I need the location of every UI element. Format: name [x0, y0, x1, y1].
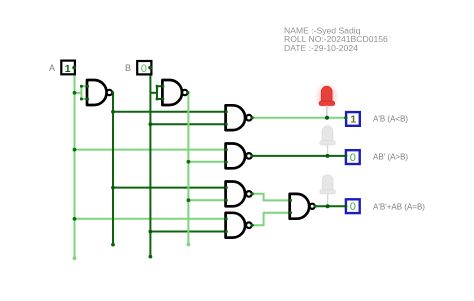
- junction node A-U6: [73, 217, 77, 221]
- pin nodes U6: [225, 217, 254, 233]
- nand-gate U5: [226, 182, 252, 207]
- svg-text:1: 1: [65, 63, 71, 75]
- wire U4 output to output O2 (low): [252, 155, 346, 157]
- wire tied-input bracket U1: [81, 86, 87, 99]
- nand-gate U4: [226, 144, 252, 169]
- wire A' to NAND U5 top input: [113, 187, 226, 189]
- wire A branch to NOT gate input: [75, 92, 82, 94]
- title text block: [284, 25, 388, 52]
- junction node A-U4: [73, 148, 77, 152]
- wire B vertical (low): [149, 68, 151, 257]
- pin node input A: [72, 66, 76, 70]
- svg-text:A'B (A<B): A'B (A<B): [373, 114, 408, 123]
- svg-text:0: 0: [141, 63, 147, 75]
- junction node LED2: [326, 154, 330, 158]
- junction node A'-U5: [111, 186, 115, 190]
- svg-text:DATE :-29-10-2024: DATE :-29-10-2024: [284, 43, 358, 53]
- wire B to NAND U3 bottom input: [150, 123, 225, 125]
- nand-gate U3: [226, 105, 252, 130]
- endpoint node A' wire: [111, 243, 115, 247]
- svg-text:A'B'+AB (A=B): A'B'+AB (A=B): [373, 203, 425, 212]
- wire U3 output to output O1 (high): [252, 117, 346, 119]
- output O2 box: [346, 150, 360, 164]
- junction node LED1: [325, 116, 329, 120]
- LED D3 (off gray): [320, 175, 336, 206]
- svg-text:0: 0: [350, 201, 356, 213]
- junction node LED3: [326, 204, 330, 208]
- wire B branch to NOT gate input: [150, 92, 157, 94]
- junction node A'-U3: [111, 110, 115, 114]
- svg-text:0: 0: [350, 152, 356, 164]
- output O3 box: [346, 199, 360, 213]
- wire tied-input bracket U2: [157, 86, 163, 99]
- LED D2 (off gray): [320, 126, 336, 156]
- pin nodes U5: [225, 186, 254, 202]
- pin nodes U7: [289, 199, 317, 214]
- nand-gate U6: [226, 213, 252, 238]
- pin node input B: [148, 66, 152, 70]
- wire B to NAND U6 bottom input: [150, 231, 225, 233]
- input A box: [61, 61, 75, 75]
- nand-gate U1 (inverter for A): [87, 80, 112, 105]
- wire A' output vertical (low): [112, 93, 113, 245]
- pin nodes U3: [225, 110, 254, 125]
- wire A vertical (high): [74, 68, 76, 258]
- junction node B'-U4: [187, 160, 191, 164]
- endpoint node B' wire: [187, 243, 191, 247]
- pin nodes U4: [225, 148, 254, 164]
- nand-gate U7 (A=B): [290, 194, 315, 219]
- output O1 box: [346, 112, 360, 126]
- endpoint node A wire: [73, 256, 77, 260]
- svg-text:AB' (A>B): AB' (A>B): [373, 152, 408, 161]
- wire U5 output step to U7 top input (high): [252, 194, 290, 201]
- wire B' to NAND U5 bottom input: [188, 199, 225, 201]
- svg-text:B: B: [125, 63, 131, 73]
- pin nodes U1: [80, 85, 114, 101]
- junction node B-U3: [149, 122, 153, 126]
- wire U6 output step to U7 bottom input (high): [252, 213, 290, 226]
- svg-text:1: 1: [350, 114, 356, 126]
- LED D1 (lit red): [314, 82, 339, 118]
- pin nodes output boxes: [344, 116, 347, 208]
- wire A to NAND U6 top input: [75, 218, 226, 220]
- wire A' to NAND U3 top input: [113, 111, 226, 113]
- nand-gate U2 (inverter for B): [162, 80, 187, 105]
- junction node B-U6: [149, 230, 153, 234]
- junction node A-U1: [73, 91, 77, 95]
- svg-text:A: A: [49, 63, 55, 73]
- wire A to NAND U4 top input: [75, 149, 226, 151]
- wire B' to NAND U4 bottom input: [188, 161, 225, 163]
- pin nodes U2: [156, 85, 190, 101]
- input B box: [137, 61, 151, 75]
- wire B' output vertical (high): [187, 93, 189, 245]
- junction node B'-U5: [187, 198, 191, 202]
- endpoint node B wire: [149, 255, 153, 259]
- wire U7 output to output O3 (low): [315, 205, 346, 207]
